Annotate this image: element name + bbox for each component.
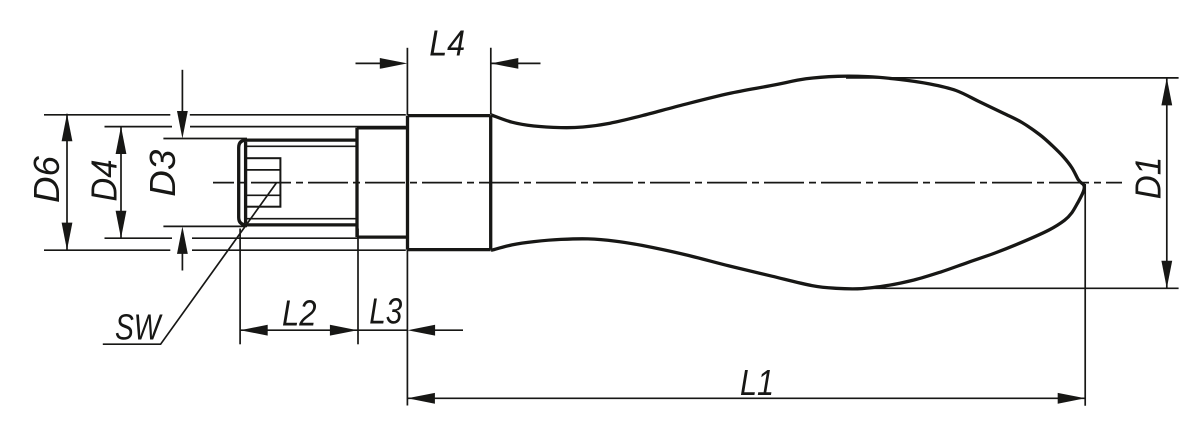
- svg-text:D1: D1: [1127, 157, 1168, 200]
- svg-text:SW: SW: [115, 307, 163, 348]
- svg-text:L3: L3: [369, 291, 402, 332]
- svg-text:L2: L2: [282, 292, 317, 333]
- svg-text:D6: D6: [26, 155, 67, 203]
- svg-text:L4: L4: [429, 22, 465, 63]
- svg-text:D4: D4: [83, 160, 124, 202]
- svg-text:L1: L1: [740, 362, 774, 403]
- svg-text:D3: D3: [142, 150, 183, 197]
